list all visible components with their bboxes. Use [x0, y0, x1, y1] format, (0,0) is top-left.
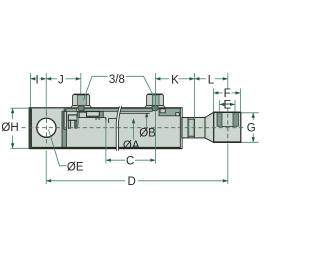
arrowheads J — [46, 77, 51, 80]
svg-text:C: C — [126, 155, 134, 167]
arrowheads I — [30, 77, 35, 80]
port 1 seat (dark U) — [78, 106, 84, 111]
C ext line left — [105, 120, 107, 164]
I dim line — [30, 78, 33, 80]
block hole vertical centerline — [227, 114, 229, 142]
cylinder body (tube + cap-eye block) — [29, 108, 182, 149]
G dim line — [252, 113, 254, 120]
break gap — [116, 106, 121, 151]
piston nut legs — [68, 120, 70, 128]
thread bands (vertical tapped hole) — [217, 113, 222, 127]
rod gland block (right end of tube, section) — [159, 108, 182, 116]
gland/cushion cluster — [77, 111, 103, 117]
small dark strip below gland — [77, 118, 79, 126]
svg-text:ØA: ØA — [123, 140, 140, 152]
svg-text:ØE: ØE — [67, 161, 84, 173]
gland seal box 2 — [176, 113, 180, 116]
D dim line — [46, 180, 125, 182]
block bottom edge — [214, 141, 241, 143]
piston rod — [182, 118, 205, 138]
tiny seal squares — [95, 118, 97, 120]
piston upper dark part — [62, 111, 64, 129]
rod end block — [214, 112, 241, 142]
svg-text:3/8: 3/8 — [109, 74, 125, 86]
D ext lines — [45, 151, 47, 185]
eye hole vertical centerline — [45, 112, 47, 144]
svg-text:ØB: ØB — [139, 127, 156, 139]
rod step lines (cut end, C origin) — [103, 117, 106, 119]
J dim line — [46, 78, 57, 80]
ext line block left face — [29, 73, 31, 108]
bore top line — [119, 112, 150, 114]
L dim line — [195, 78, 207, 80]
rod groove edge lines — [187, 118, 189, 138]
eye hole — [37, 118, 56, 137]
arrowheads OH — [11, 108, 14, 113]
port 2 seat (dark U) — [152, 106, 158, 111]
arrowhead OB — [145, 112, 148, 117]
arrowheads L — [195, 77, 200, 80]
svg-text:L: L — [208, 74, 215, 86]
ext line port2 center (long) — [154, 73, 156, 164]
rod taper — [205, 112, 214, 142]
horizontal centerline — [22, 127, 247, 129]
F ext lines — [212, 89, 214, 112]
arrowheads C — [106, 159, 111, 162]
ext line port1 center — [80, 73, 82, 94]
svg-text:I: I — [35, 74, 38, 86]
E ext lines — [218, 100, 220, 112]
G ext lines — [242, 112, 259, 114]
E dim line — [219, 103, 222, 105]
rod top line to break — [109, 117, 117, 119]
arrowheads K — [155, 77, 160, 80]
OH dim line — [12, 108, 14, 119]
arrowheads D — [46, 179, 51, 182]
ext line rod groove — [194, 73, 196, 119]
OH ext lines — [11, 107, 30, 109]
K dim line — [155, 78, 169, 80]
body bottom thick edge — [29, 147, 182, 149]
break line left — [116, 106, 119, 151]
rod groove side shading — [188, 120, 190, 136]
3/8 leader right — [126, 76, 153, 95]
arrowheads F — [213, 91, 218, 94]
arrowheads G — [252, 113, 255, 118]
top wall band segments (section) — [64, 108, 77, 111]
svg-text:D: D — [127, 176, 135, 188]
OE leader — [49, 130, 67, 166]
port 1 boss — [71, 94, 92, 108]
C dim line — [106, 159, 125, 161]
tube end face — [180, 108, 182, 148]
svg-text:J: J — [58, 74, 64, 86]
piston top corner connector — [64, 108, 67, 112]
gland seal box 1 — [160, 109, 165, 113]
piston (vertical bar) — [62, 111, 66, 147]
arrowheads E — [219, 103, 224, 106]
3/8 leader left — [84, 76, 108, 100]
F dim line — [213, 92, 222, 94]
block top edge — [214, 111, 241, 113]
rod groove — [188, 119, 194, 136]
port 2 boss — [145, 94, 166, 108]
OA arrow line — [133, 120, 135, 140]
svg-text:K: K — [171, 75, 179, 87]
svg-text:F: F — [224, 88, 231, 100]
OB arrow line — [146, 114, 148, 128]
ext line eye center (top) — [45, 73, 47, 113]
arrowhead OA — [132, 118, 135, 123]
svg-text:G: G — [247, 123, 256, 135]
ext line block hole center segments — [227, 73, 229, 89]
piston nut box — [68, 115, 77, 120]
cap block left face thick edge — [29, 108, 32, 149]
break line right — [118, 106, 121, 151]
svg-text:ØH: ØH — [1, 122, 18, 134]
tapped hole bottom — [222, 126, 233, 128]
piston upper light part — [64, 111, 66, 129]
svg-text:E: E — [223, 100, 231, 112]
